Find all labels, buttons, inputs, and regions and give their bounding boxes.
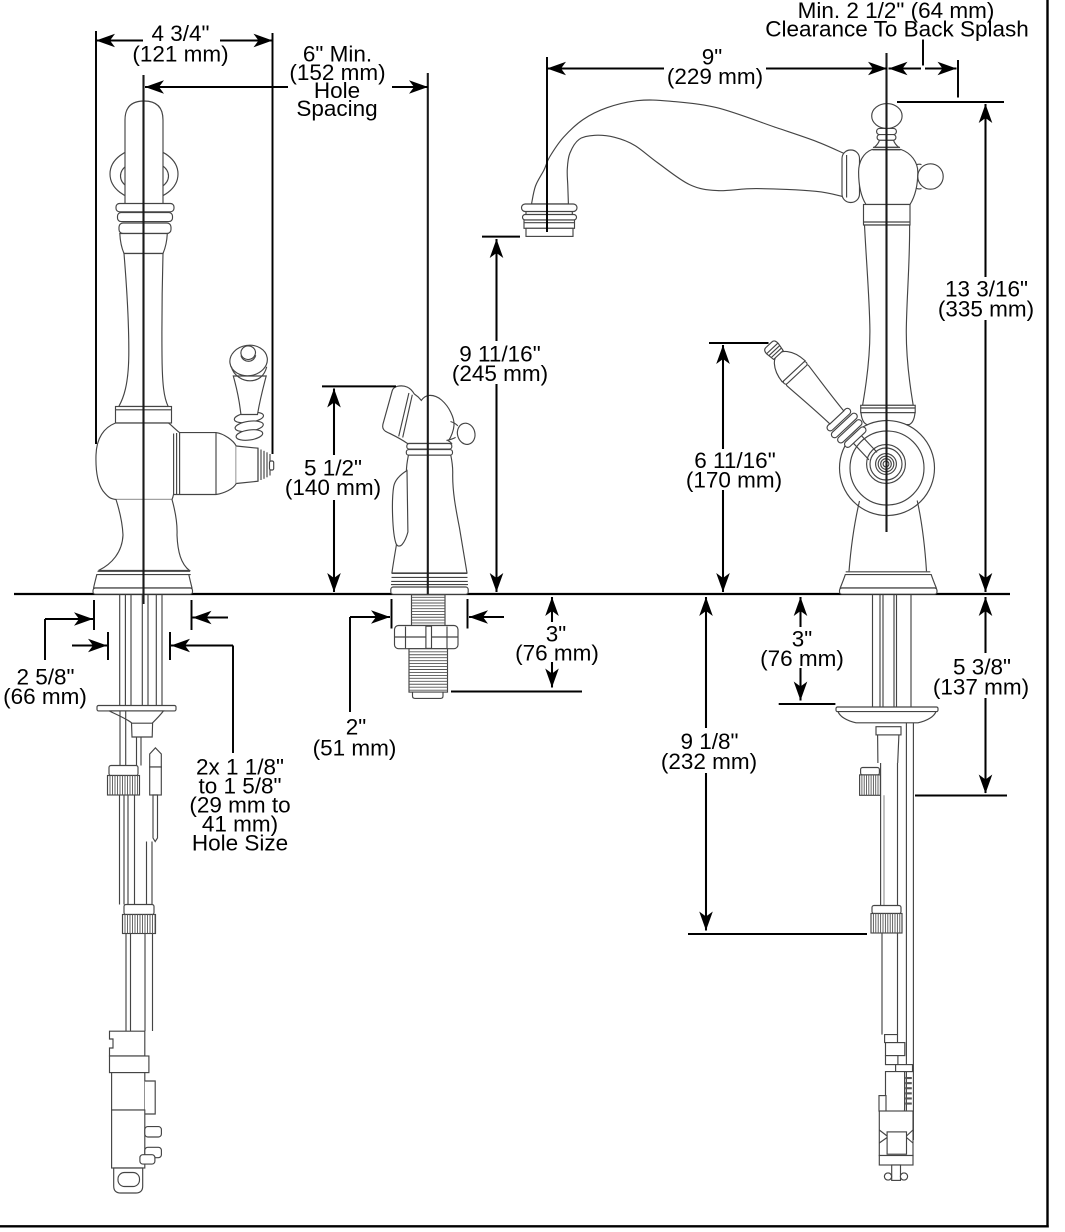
dim 4-3/4 left tick: [95, 31, 97, 444]
svg-text:(76 mm): (76 mm): [760, 646, 844, 671]
dim 6min line left: [145, 86, 288, 88]
right hose tube: [878, 735, 899, 763]
right hose collar: [876, 727, 901, 735]
dim 4-3/4 line right: [220, 39, 273, 41]
left faucet ring band 2: [118, 213, 173, 222]
right neck box: [864, 205, 911, 226]
right conn inner square: [887, 1132, 906, 1154]
dim 2-5/8 ticks: [93, 600, 95, 630]
right centerline: [885, 53, 887, 532]
dim min2.5 arrows: [889, 62, 908, 76]
left faucet ring band 1: [116, 204, 174, 212]
right escutcheon bowl: [838, 712, 936, 723]
right fitting1 cap: [861, 768, 880, 775]
right bonnet: [859, 150, 918, 205]
svg-text:(140 mm): (140 mm): [285, 475, 381, 500]
right spout: [532, 100, 845, 204]
right fitting2 knurl: [871, 914, 902, 934]
sprayer collar band 1: [407, 444, 452, 450]
right handle: [757, 333, 885, 467]
dim 2-5/8 arrow right: [193, 616, 229, 618]
sprayer button: [455, 421, 477, 446]
dim 5-3/8 bottom tick: [915, 795, 1007, 797]
right valve circle inner: [850, 431, 924, 505]
right conn block: [886, 1043, 905, 1056]
right column: [863, 225, 914, 405]
right knob: [918, 164, 943, 189]
countertop line: [14, 593, 1010, 595]
sprayer pipe tip: [413, 692, 444, 698]
dim 13-3/16 top tick: [897, 101, 1004, 103]
left connector block A: [110, 1031, 145, 1056]
dim 2-5/8 arrow left: [45, 618, 93, 620]
dim spr3 line: [551, 597, 553, 622]
dim holesize arrow left: [72, 644, 107, 646]
sprayer nozzle rim lines: [399, 393, 409, 436]
sprayer button stem: [447, 422, 458, 441]
svg-text:Hole Size: Hole Size: [192, 831, 288, 856]
right spout outlet tip: [526, 228, 573, 236]
svg-text:(229 mm): (229 mm): [667, 64, 763, 89]
left connector bottom slot: [118, 1173, 140, 1187]
dim holesize ticks: [107, 632, 109, 660]
right knob links: [916, 164, 921, 189]
right conn ribs: [905, 1077, 912, 1079]
right spout collar: [842, 150, 860, 203]
right base rings: [846, 571, 931, 573]
left handle cap ring: [231, 367, 266, 381]
right lower tubes: [881, 933, 883, 1035]
dim r3 line: [799, 597, 801, 627]
left handle button: [240, 345, 256, 360]
dim holesize arrow right: [171, 644, 233, 646]
sprayer bell rings: [392, 572, 467, 574]
left handle rib 1: [234, 411, 265, 425]
left faucet collar: [116, 407, 172, 424]
svg-text:(232 mm): (232 mm): [661, 749, 757, 774]
left handle rib 3: [235, 428, 263, 442]
left fitting2 cap: [124, 905, 154, 915]
right base sides: [849, 501, 927, 572]
left faucet outlet nub: [270, 461, 274, 470]
right valve boss rings: [867, 445, 906, 484]
dim holesize elbow: [232, 646, 234, 754]
left faucet centerline: [142, 75, 144, 604]
svg-text:(51 mm): (51 mm): [313, 736, 397, 761]
right finial ball: [872, 104, 902, 129]
left lift rod body: [150, 767, 162, 795]
right finial ring 1: [877, 128, 897, 134]
right column foot: [861, 413, 915, 425]
right conn ears: [884, 1173, 891, 1180]
right spout outlet waist: [525, 212, 527, 215]
left flange plate: [97, 706, 176, 711]
sprayer head body: [383, 386, 454, 444]
dim 4-3/4 line left: [96, 39, 143, 41]
right fitting2 cap: [872, 906, 901, 914]
left faucet ring band 3: [119, 223, 171, 234]
svg-text:(76 mm): (76 mm): [515, 641, 599, 666]
sprayer body: [392, 455, 467, 573]
right conn wide block: [879, 1111, 913, 1156]
right conn bottom plate: [879, 1156, 913, 1166]
left faucet outlet bell edge: [215, 433, 217, 495]
svg-text:(137 mm): (137 mm): [933, 675, 1029, 700]
dim 9 line right: [766, 67, 887, 69]
left faucet valve body: [96, 423, 236, 500]
left connector tab 2: [145, 1147, 162, 1157]
right base flare: [840, 575, 936, 588]
left faucet base neck: [99, 500, 190, 571]
left lift rod cap: [150, 748, 162, 767]
right spout outlet band 1: [522, 204, 578, 212]
left fitting1 cap: [109, 766, 138, 776]
left flange funnel: [109, 711, 164, 737]
sprayer shank: [412, 595, 446, 626]
right conn collar: [879, 1096, 886, 1112]
dim 13-3/16 line: [984, 104, 986, 277]
dim 5-1/2 top tick: [322, 385, 396, 387]
right tube outer: [905, 723, 907, 1140]
svg-text:(170 mm): (170 mm): [686, 468, 782, 493]
dim 5-1/2 line: [333, 389, 335, 456]
left hose tubes upper: [136, 737, 138, 766]
dim 9-11/16 line: [495, 239, 497, 341]
svg-text:(335 mm): (335 mm): [938, 297, 1034, 322]
left tubes lower: [125, 934, 127, 1032]
left faucet base rings: [98, 570, 191, 572]
left lift rod needle: [153, 795, 158, 842]
left faucet outlet step lines: [173, 434, 175, 495]
dim min2.5 right tick: [957, 60, 959, 98]
left handle rib 2: [234, 419, 264, 433]
left faucet joint ring inner: [121, 161, 169, 192]
dim 2in elbow: [349, 617, 351, 712]
left connector body: [112, 1073, 145, 1110]
right conn narrow: [886, 1056, 898, 1065]
left connector hook: [145, 1081, 155, 1114]
sprayer collar band 2: [406, 450, 452, 456]
dim spr3 bottom tick: [451, 691, 582, 693]
left faucet base plate: [93, 588, 193, 594]
right conn step: [896, 1065, 913, 1072]
dim 6min line right: [392, 86, 428, 88]
sprayer lower pipe: [409, 649, 448, 692]
left supply tubes: [119, 595, 121, 706]
right valve circle outer: [840, 421, 935, 516]
right base plate: [840, 588, 938, 594]
dim 2in ticks: [391, 599, 393, 629]
right conn U body: [886, 1072, 905, 1127]
left connector block B: [110, 1056, 149, 1073]
right escutcheon plate: [836, 707, 938, 712]
dim 9 line left: [547, 67, 664, 69]
right conn bracket: [885, 1035, 898, 1043]
left faucet outlet face ribs: [257, 448, 259, 481]
dim 2-5/8 elbow: [44, 619, 46, 660]
dim 9-11/16 top tick: [482, 236, 520, 238]
left faucet base flare: [94, 575, 192, 588]
right finial ring 2: [877, 135, 896, 141]
right spout outlet body: [524, 220, 575, 228]
left connector bottom cap: [114, 1168, 143, 1193]
right spout outlet band 2: [523, 215, 577, 221]
svg-text:(245 mm): (245 mm): [452, 361, 548, 386]
left faucet outlet tip: [236, 446, 258, 484]
left faucet neck taper: [120, 234, 168, 254]
sprayer mounting nut: [395, 626, 459, 649]
dim 2in arrows: [350, 616, 390, 618]
left faucet column: [119, 254, 168, 407]
right finial neck flare: [874, 140, 898, 147]
left handle cap: [228, 343, 269, 378]
left connector cylinder: [112, 1110, 145, 1168]
dim 5-3/8 line: [984, 597, 986, 653]
right conn stem: [892, 1165, 901, 1180]
left connector tab 3: [140, 1155, 155, 1164]
svg-text:(121 mm): (121 mm): [132, 42, 228, 67]
svg-text:Clearance To Back Splash: Clearance To Back Splash: [765, 17, 1029, 42]
sprayer base plate: [391, 587, 468, 594]
border right: [1046, 0, 1048, 1228]
svg-text:(66 mm): (66 mm): [3, 684, 87, 709]
left fitting1 knurl: [108, 776, 140, 796]
right column collar: [861, 405, 916, 412]
dim r3 bottom tick: [779, 703, 836, 705]
dim 9 left tick: [546, 57, 548, 232]
right mid tube: [880, 763, 882, 906]
sprayer centerline: [427, 73, 429, 615]
svg-text:Spacing: Spacing: [296, 96, 377, 121]
dim 6-11/16 top tick: [709, 342, 769, 344]
dim 9-1/8 line: [705, 597, 707, 728]
left tubes mid: [119, 795, 121, 905]
left fitting2 knurl: [123, 915, 156, 934]
dim 4-3/4 right tick: [272, 33, 274, 454]
dim 6-11/16 line: [722, 345, 724, 449]
left handle grip: [233, 376, 266, 415]
dim min2.5 leader: [922, 40, 924, 66]
dim 9-1/8 bottom tick: [688, 933, 867, 935]
right fitting1 knurl: [860, 775, 881, 795]
border bottom: [0, 1225, 1049, 1227]
left handle button ring: [241, 355, 256, 361]
left faucet joint ring outer: [110, 148, 178, 200]
right conn notches: [879, 1130, 913, 1143]
left faucet spout tube: [125, 101, 163, 214]
left connector tab 1: [145, 1127, 162, 1137]
sprayer trigger: [392, 471, 407, 547]
right supply tubes: [872, 595, 874, 707]
